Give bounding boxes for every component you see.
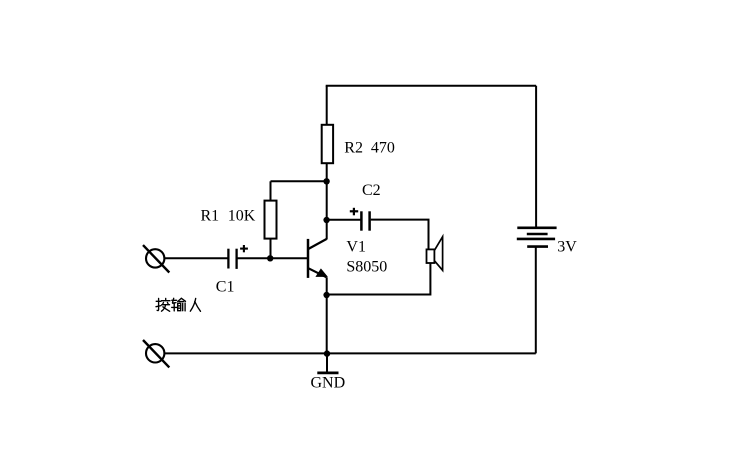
- capacitor C2: [350, 208, 370, 231]
- terminal input top: [143, 245, 169, 272]
- svg-text:S8050: S8050: [346, 258, 387, 275]
- wire R1 top lead: [270, 181, 272, 201]
- capacitor C1: [228, 245, 248, 269]
- wire R1 bottom lead to base node: [270, 239, 272, 259]
- label input "接输入" (hand-drawn glyphs): [156, 298, 201, 311]
- wire collector node to C2: [327, 219, 361, 221]
- battery B1 3V: [517, 228, 557, 247]
- wire R1 top horizontal: [271, 180, 327, 182]
- svg-text:V1: V1: [346, 239, 366, 256]
- node junction dot collector / C2 feed: [323, 217, 329, 223]
- svg-text:C2: C2: [362, 182, 381, 199]
- svg-text:C1: C1: [216, 279, 235, 296]
- svg-text:3V: 3V: [557, 238, 577, 255]
- wire bottom ground rail: [165, 352, 536, 354]
- wire top supply rail: [326, 85, 536, 87]
- wire emitter to ground rail: [326, 277, 328, 353]
- ground GND symbol: [317, 354, 338, 373]
- transistor V1: [308, 239, 328, 278]
- wire input terminal to C1: [165, 257, 228, 259]
- wire C1 to transistor base: [238, 257, 308, 259]
- resistor R2: [322, 125, 333, 163]
- svg-text:470: 470: [371, 140, 395, 157]
- wire R2 bottom to collector: [326, 163, 328, 239]
- terminal input bottom: [143, 340, 169, 367]
- wire right rail battery positive: [535, 86, 537, 228]
- resistor R1: [265, 201, 277, 239]
- wire speaker bottom to emitter node: [327, 263, 431, 294]
- wire top rail to R2 top: [326, 86, 328, 126]
- node junction dot emitter: [323, 292, 329, 298]
- wire right rail battery negative: [535, 247, 537, 354]
- svg-text:10K: 10K: [228, 208, 256, 225]
- svg-text:R2: R2: [344, 140, 363, 157]
- svg-text:GND: GND: [311, 375, 346, 392]
- speaker LS: [427, 237, 443, 271]
- node junction dot base: [267, 255, 273, 261]
- wire C2 to speaker top: [371, 220, 429, 250]
- svg-text:R1: R1: [201, 208, 220, 225]
- node junction dot R1 top feed: [323, 178, 329, 184]
- node junction dot ground: [324, 350, 330, 356]
